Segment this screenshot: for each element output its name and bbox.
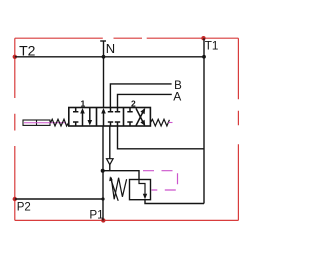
frame right border (part dashed red) (237, 38, 239, 220)
frame left border (14, 38, 16, 220)
wire port B (110, 84, 171, 108)
junction T1 on T line (202, 55, 206, 59)
position-2 box internals (crossed arrows) (127, 108, 144, 127)
svg-text:P1: P1 (89, 209, 103, 222)
wire P2 line (15, 198, 103, 200)
junction P2 tee (101, 197, 104, 200)
svg-text:T1: T1 (205, 40, 219, 53)
wire N vertical (103, 41, 105, 108)
wire relief outlet to T1 (145, 200, 204, 204)
wire N carryover down to P1 (102, 126, 104, 220)
spring right (150, 119, 169, 126)
wire check branch (109, 126, 111, 171)
wire P gallery horizontal (103, 171, 139, 180)
svg-text:2: 2 (131, 98, 136, 108)
check valve CV1 (107, 159, 114, 165)
wire T2-T1 gallery (15, 56, 204, 58)
node N plug tick (100, 40, 106, 42)
port dot P2 (13, 197, 17, 201)
wire tank branch to T1 (118, 126, 205, 149)
svg-text:A: A (173, 89, 181, 103)
frame top border (dashed red) (15, 37, 239, 39)
svg-text:N: N (106, 41, 115, 56)
svg-text:1: 1 (81, 98, 86, 108)
svg-text:P2: P2 (17, 201, 31, 213)
pilot line (magenta dashed) (141, 171, 178, 190)
valve V1 body (3-position spool) (69, 108, 151, 127)
magenta axis line in lever (24, 122, 66, 124)
port dot T1 (201, 36, 205, 40)
position-1 box internals (73, 108, 90, 127)
port dot P1 (101, 218, 105, 222)
relief valve RV1 body (130, 180, 151, 200)
actuator lever block (23, 120, 50, 125)
wire port A (118, 94, 172, 107)
magenta axis tick right (168, 122, 172, 124)
position-neutral box internals (104, 108, 121, 127)
wire T1 vertical (203, 38, 205, 203)
port dot T2 (13, 55, 17, 59)
relief valve adjustable spring (111, 178, 126, 200)
frame bottom border (15, 219, 239, 221)
spring left (51, 119, 69, 126)
junction P gallery (101, 169, 105, 173)
junction N on T line (102, 55, 106, 59)
relief valve flow arrow (139, 180, 145, 196)
